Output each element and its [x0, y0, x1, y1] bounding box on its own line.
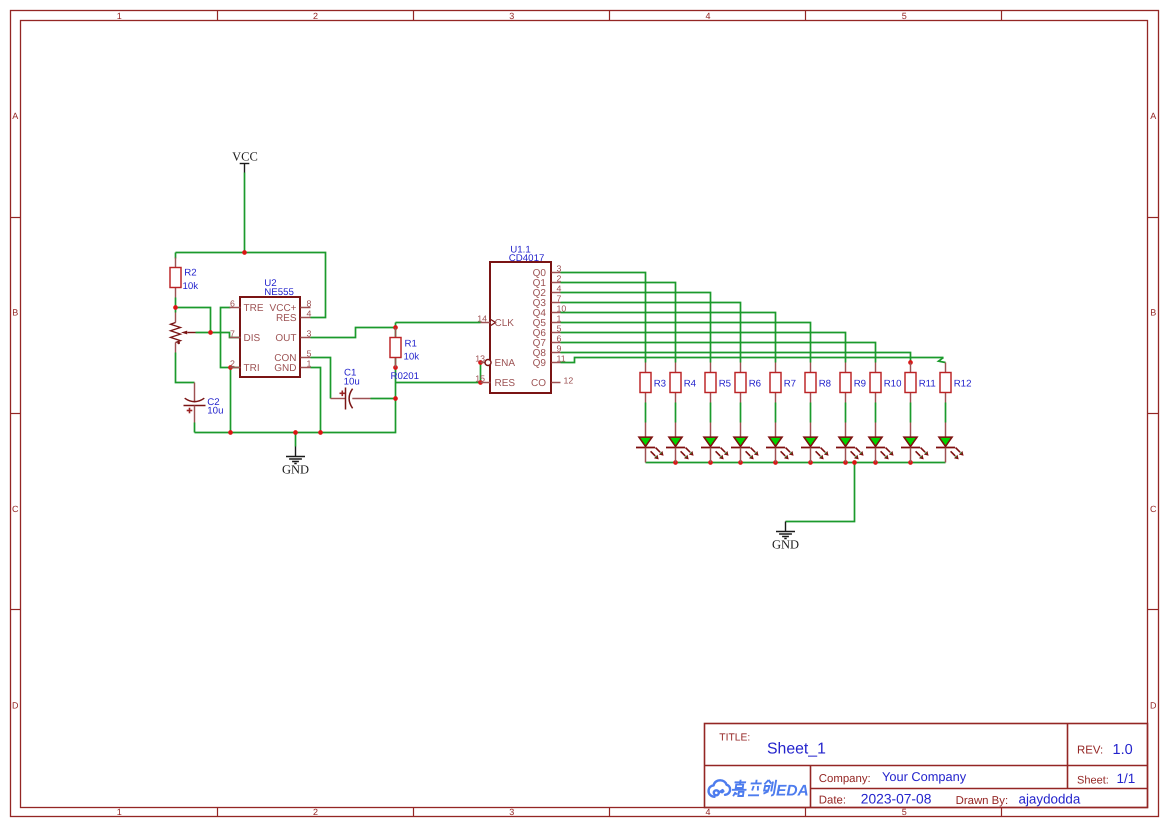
svg-text:4: 4 — [557, 283, 562, 293]
svg-text:2: 2 — [557, 273, 562, 283]
svg-text:CLK: CLK — [495, 318, 515, 329]
svg-text:3: 3 — [509, 11, 514, 21]
svg-text:TITLE:: TITLE: — [719, 733, 750, 744]
svg-text:2: 2 — [313, 807, 318, 817]
svg-text:Your Company: Your Company — [882, 769, 967, 784]
svg-text:CD4017: CD4017 — [509, 253, 545, 264]
svg-text:R3: R3 — [654, 378, 666, 389]
svg-text:Sheet_1: Sheet_1 — [767, 741, 826, 758]
svg-text:R2: R2 — [184, 267, 196, 278]
svg-text:3: 3 — [307, 328, 312, 338]
svg-text:6: 6 — [557, 333, 562, 343]
svg-text:VCC: VCC — [232, 149, 258, 163]
svg-text:11: 11 — [557, 353, 566, 363]
svg-text:Date:: Date: — [819, 795, 846, 807]
svg-text:TRI: TRI — [244, 363, 260, 374]
svg-text:3: 3 — [557, 263, 562, 273]
svg-text:1: 1 — [117, 11, 122, 21]
svg-text:ENA: ENA — [495, 358, 516, 369]
svg-text:TRE: TRE — [244, 303, 264, 314]
svg-text:4: 4 — [705, 11, 710, 21]
svg-text:Q9: Q9 — [533, 358, 547, 369]
svg-text:CO: CO — [531, 378, 546, 389]
svg-text:2: 2 — [230, 358, 235, 368]
svg-text:R4: R4 — [684, 378, 697, 389]
svg-text:RES: RES — [276, 313, 297, 324]
svg-text:RES: RES — [495, 378, 516, 389]
svg-text:5: 5 — [307, 348, 312, 358]
svg-text:R8: R8 — [819, 378, 831, 389]
svg-text:10u: 10u — [344, 376, 360, 387]
svg-text:R10: R10 — [884, 378, 902, 389]
svg-text:15: 15 — [475, 373, 485, 383]
svg-text:GND: GND — [274, 363, 296, 374]
svg-text:1: 1 — [557, 313, 562, 323]
svg-text:R12: R12 — [954, 378, 972, 389]
svg-text:1: 1 — [117, 807, 122, 817]
svg-text:B: B — [1150, 308, 1156, 318]
svg-text:R6: R6 — [749, 378, 761, 389]
svg-text:R9: R9 — [854, 378, 866, 389]
svg-text:OUT: OUT — [275, 333, 296, 344]
svg-text:1: 1 — [307, 358, 312, 368]
svg-text:D: D — [1150, 701, 1157, 711]
svg-text:7: 7 — [557, 293, 562, 303]
svg-text:A: A — [12, 111, 18, 121]
svg-text:R5: R5 — [719, 378, 731, 389]
svg-text:10: 10 — [557, 303, 567, 313]
svg-text:B: B — [12, 308, 18, 318]
svg-text:2023-07-08: 2023-07-08 — [861, 791, 932, 806]
svg-text:10k: 10k — [404, 352, 420, 363]
svg-text:4: 4 — [705, 807, 710, 817]
svg-text:10k: 10k — [183, 281, 199, 292]
svg-text:12: 12 — [564, 375, 574, 385]
svg-text:ajaydodda: ajaydodda — [1019, 791, 1081, 806]
svg-text:3: 3 — [509, 807, 514, 817]
svg-text:Company:: Company: — [819, 773, 871, 785]
svg-text:1/1: 1/1 — [1117, 771, 1136, 786]
svg-text:10u: 10u — [207, 406, 223, 417]
svg-text:14: 14 — [477, 313, 487, 323]
svg-text:REV:: REV: — [1077, 745, 1103, 757]
svg-text:C: C — [1150, 504, 1157, 514]
svg-text:NE555: NE555 — [264, 287, 294, 298]
svg-text:1.0: 1.0 — [1113, 742, 1133, 758]
svg-text:6: 6 — [230, 298, 235, 308]
svg-text:8: 8 — [307, 298, 312, 308]
svg-text:A: A — [1150, 111, 1156, 121]
svg-text:C: C — [12, 504, 19, 514]
svg-text:D: D — [12, 701, 19, 711]
svg-text:5: 5 — [902, 807, 907, 817]
svg-text:EDA: EDA — [776, 782, 809, 799]
svg-text:5: 5 — [902, 11, 907, 21]
svg-text:R0201: R0201 — [391, 371, 420, 382]
svg-text:GND: GND — [282, 463, 309, 477]
svg-text:7: 7 — [230, 328, 235, 338]
svg-text:R11: R11 — [919, 378, 936, 389]
svg-text:4: 4 — [307, 308, 312, 318]
svg-text:GND: GND — [772, 538, 799, 552]
svg-text:DIS: DIS — [244, 333, 261, 344]
svg-text:R7: R7 — [784, 378, 796, 389]
svg-text:5: 5 — [557, 323, 562, 333]
svg-text:13: 13 — [475, 353, 485, 363]
svg-text:Drawn By:: Drawn By: — [956, 795, 1009, 807]
svg-text:2: 2 — [313, 11, 318, 21]
svg-text:R1: R1 — [405, 339, 417, 350]
svg-text:9: 9 — [557, 343, 562, 353]
svg-text:Sheet:: Sheet: — [1077, 775, 1109, 787]
